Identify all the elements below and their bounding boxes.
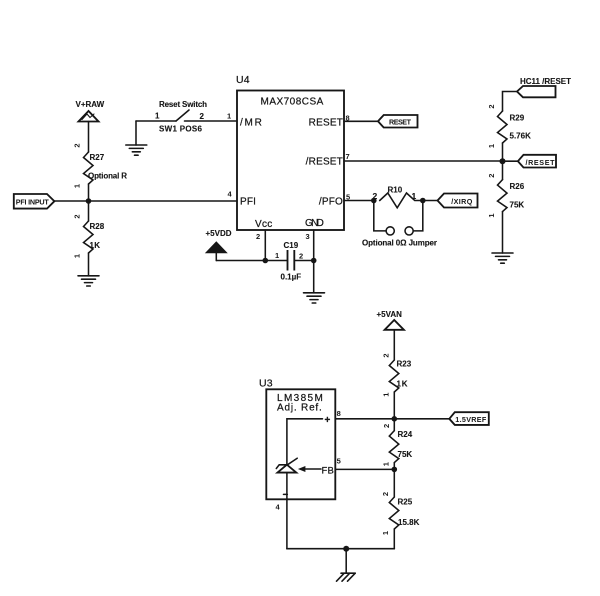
- svg-text:PFI: PFI: [240, 197, 256, 208]
- svg-text:0.1µF: 0.1µF: [281, 273, 302, 282]
- svg-text:2: 2: [256, 232, 260, 241]
- svg-text:+5VDD: +5VDD: [206, 229, 232, 238]
- svg-text:2: 2: [381, 492, 390, 496]
- svg-text:1.5VREF: 1.5VREF: [455, 415, 487, 424]
- svg-text:2: 2: [382, 424, 391, 428]
- svg-text:+5VAN: +5VAN: [377, 310, 403, 319]
- svg-text:2: 2: [487, 174, 496, 178]
- svg-text:75K: 75K: [398, 450, 413, 459]
- svg-text:2: 2: [73, 143, 82, 147]
- svg-text:U3: U3: [259, 378, 273, 390]
- svg-text:C19: C19: [284, 241, 299, 250]
- svg-text:1K: 1K: [90, 241, 101, 250]
- svg-text:3: 3: [306, 232, 310, 241]
- svg-text:R28: R28: [90, 222, 105, 231]
- svg-text:1: 1: [73, 254, 82, 258]
- svg-text:R25: R25: [398, 498, 413, 507]
- svg-text:R24: R24: [398, 430, 413, 439]
- svg-text:4: 4: [276, 503, 281, 512]
- svg-text:7: 7: [346, 152, 350, 161]
- svg-text:2: 2: [73, 214, 82, 218]
- svg-text:R26: R26: [510, 182, 525, 191]
- svg-text:Adj. Ref.: Adj. Ref.: [277, 403, 322, 414]
- svg-text:2: 2: [299, 252, 303, 261]
- svg-text:R10: R10: [388, 186, 403, 195]
- svg-text:/RESET: /RESET: [526, 158, 556, 167]
- svg-text:RESET: RESET: [309, 118, 343, 129]
- svg-text:Reset Switch: Reset Switch: [159, 100, 207, 109]
- svg-text:5.76K: 5.76K: [510, 132, 532, 141]
- svg-text:GND: GND: [305, 218, 324, 229]
- svg-text:15.8K: 15.8K: [398, 518, 420, 527]
- svg-text:1: 1: [382, 393, 391, 397]
- svg-text:R29: R29: [510, 114, 525, 123]
- svg-text:1: 1: [487, 213, 496, 217]
- svg-text:/MR: /MR: [240, 118, 262, 129]
- svg-text:RESET: RESET: [389, 118, 412, 127]
- svg-text:5: 5: [337, 457, 341, 466]
- svg-text:4: 4: [228, 190, 233, 199]
- svg-text:/XIRQ: /XIRQ: [451, 197, 472, 206]
- svg-text:/RESET: /RESET: [306, 157, 343, 168]
- svg-text:+: +: [325, 415, 331, 426]
- svg-text:Vcc: Vcc: [255, 219, 273, 230]
- svg-text:/PFO: /PFO: [319, 197, 343, 208]
- svg-text:PFI INPUT: PFI INPUT: [16, 197, 50, 206]
- svg-text:MAX708CSA: MAX708CSA: [261, 97, 324, 108]
- svg-text:Optional R: Optional R: [88, 172, 127, 181]
- svg-text:75K: 75K: [510, 201, 525, 210]
- svg-text:2: 2: [382, 353, 391, 357]
- svg-text:HC11 /RESET: HC11 /RESET: [520, 77, 571, 86]
- svg-text:R27: R27: [90, 153, 105, 162]
- svg-text:V+RAW: V+RAW: [76, 100, 105, 109]
- svg-text:8: 8: [337, 409, 341, 418]
- svg-text:1: 1: [155, 112, 160, 121]
- svg-text:1: 1: [382, 462, 391, 466]
- svg-text:2: 2: [373, 191, 378, 201]
- svg-text:FB: FB: [322, 466, 335, 477]
- svg-text:1: 1: [487, 144, 496, 148]
- svg-text:1: 1: [227, 112, 231, 121]
- svg-text:1: 1: [73, 184, 82, 188]
- svg-text:2: 2: [200, 112, 205, 121]
- svg-text:1: 1: [275, 251, 279, 260]
- svg-text:R23: R23: [397, 360, 412, 369]
- svg-text:1K: 1K: [397, 380, 408, 389]
- svg-text:Optional 0Ω Jumper: Optional 0Ω Jumper: [362, 238, 437, 247]
- svg-text:U4: U4: [236, 74, 250, 86]
- svg-text:SW1 POS6: SW1 POS6: [159, 125, 203, 134]
- svg-text:1: 1: [381, 531, 390, 535]
- svg-text:2: 2: [487, 104, 496, 108]
